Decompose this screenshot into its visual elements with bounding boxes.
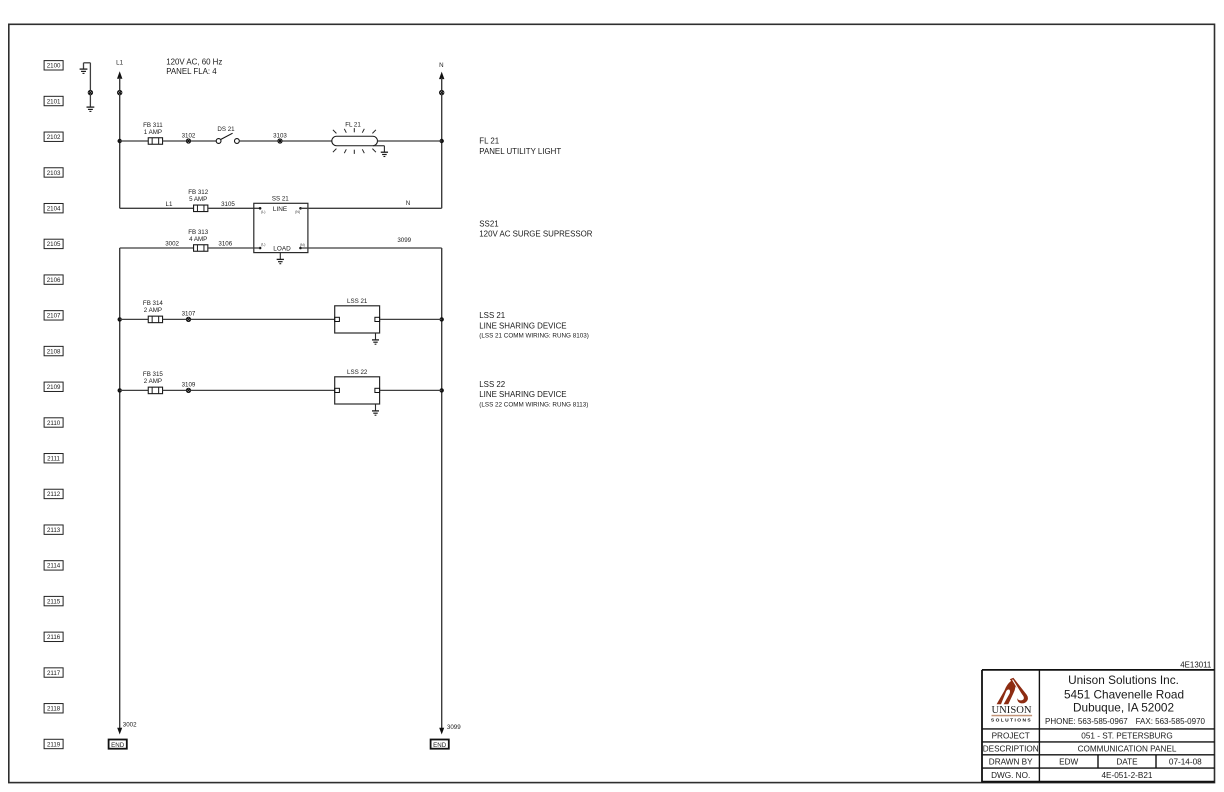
description LSS 21 [479,311,589,339]
svg-text:L1: L1 [166,201,173,208]
wire rung 2102 segment d [239,140,277,142]
wire rung 2104 segment b [208,207,260,209]
svg-text:3102: 3102 [182,132,196,139]
terminal 3102 [182,132,196,143]
svg-text:2108: 2108 [47,348,61,355]
wire label 3002 at rail bottom [123,722,137,729]
END marker left [109,740,127,749]
N rail (vertical bus) [441,78,443,209]
svg-text:1 AMP: 1 AMP [144,129,162,136]
svg-text:2 AMP: 2 AMP [144,307,162,314]
svg-text:LSS 22: LSS 22 [479,380,505,389]
Unison logo wordmark [991,705,1032,724]
svg-text:SS21: SS21 [479,220,498,229]
svg-text:Unison Solutions Inc.: Unison Solutions Inc. [1068,673,1179,687]
svg-text:3002: 3002 [165,240,179,247]
wire label 3105 [221,201,235,208]
svg-text:2113: 2113 [47,527,61,534]
wire rung 2105 segment c [301,247,442,249]
ground at lamp FL 21 [381,152,388,156]
wire rung 2107 segment d [380,318,442,320]
lamp FL 21 (panel utility light) [332,122,378,154]
svg-text:PHONE: 563-585-0967: PHONE: 563-585-0967 [1045,717,1128,726]
svg-text:3103: 3103 [273,132,287,139]
svg-text:FL 21: FL 21 [479,136,499,145]
svg-text:5 AMP: 5 AMP [189,196,207,203]
svg-text:2112: 2112 [47,491,61,498]
line sharing device LSS 21 [335,298,380,333]
svg-text:3099: 3099 [397,237,411,244]
svg-text:END: END [111,742,125,749]
svg-text:2105: 2105 [47,241,61,248]
feed annotation text [166,58,222,77]
svg-text:2110: 2110 [47,420,61,427]
fuse FB 312 [188,189,209,211]
junction dot right rail / rung 2107 [440,317,444,321]
svg-text:2103: 2103 [47,170,61,177]
svg-text:(L): (L) [261,210,265,214]
svg-text:2 AMP: 2 AMP [144,378,162,385]
junction dot left rail / rung 2109 [118,388,122,392]
disconnect switch DS 21 [216,126,239,143]
svg-text:SS 21: SS 21 [272,196,289,203]
svg-text:2104: 2104 [47,205,61,212]
ground at SS 21 [277,253,284,264]
terminal 3107 [182,311,196,322]
description SS21 [479,220,592,239]
svg-text:2117: 2117 [47,670,61,677]
right rail arrow head (down) [439,728,444,735]
svg-text:(LSS 21 COMM WIRING: RUNG 8103: (LSS 21 COMM WIRING: RUNG 8103) [479,332,589,339]
wire rung 2109 segment b [163,389,187,391]
svg-text:2116: 2116 [47,634,61,641]
wire label 3099 at rail bottom [447,724,461,731]
wire rung 2102 segment c [191,140,217,142]
wire rung 2109 segment a [120,389,149,391]
svg-text:FB 315: FB 315 [143,371,164,378]
wire lamp ground branch [373,146,384,152]
svg-text:4E13011: 4E13011 [1180,660,1211,669]
description FL 21 [479,136,561,155]
wire rung 2109 segment c [191,389,335,391]
svg-text:UNISON: UNISON [991,705,1031,716]
svg-text:2114: 2114 [47,563,61,570]
line sharing device LSS 22 [335,369,380,404]
svg-text:EDW: EDW [1059,758,1078,767]
terminal 3109 [182,382,196,393]
ground at LSS 21 [372,333,379,344]
L1 rail (vertical bus) [119,78,121,209]
svg-text:3002: 3002 [123,722,137,729]
L1 rail arrow head [117,71,122,79]
svg-text:3105: 3105 [221,201,235,208]
svg-text:LSS 21: LSS 21 [479,311,505,320]
svg-text:07-14-08: 07-14-08 [1169,758,1202,767]
wire SS21 LINE internal to N [301,207,442,209]
wire (bonding vertical) [89,63,91,107]
wire rung 2105 segment a [120,247,194,249]
svg-text:5451 Chavenelle Road: 5451 Chavenelle Road [1064,688,1184,702]
wire rung 2102 segment d2 [282,140,332,142]
svg-text:051 - ST. PETERSBURG: 051 - ST. PETERSBURG [1081,732,1172,741]
svg-text:3106: 3106 [218,240,232,247]
svg-text:DS 21: DS 21 [217,126,235,133]
wire rung 2107 segment c [191,318,335,320]
svg-text:(LSS 22 COMM WIRING: RUNG 8113: (LSS 22 COMM WIRING: RUNG 8113) [479,401,588,408]
left rail 3002 (vertical) [119,248,121,729]
wire label L1 on rung 2104 [166,201,173,208]
svg-text:(N): (N) [300,243,305,247]
svg-text:LINE SHARING DEVICE: LINE SHARING DEVICE [479,321,566,330]
fuse FB 311 [143,122,163,144]
svg-text:DRAWN BY: DRAWN BY [989,758,1033,767]
title block row DRAWN BY [989,758,1202,767]
fuse FB 314 [143,300,164,322]
svg-text:FB 311: FB 311 [143,122,163,129]
title block row PROJECT [992,732,1173,741]
ground G2 (top-left bonding, lower) [87,107,95,111]
wire rung 2105 segment b [208,247,260,249]
svg-text:120V AC SURGE SUPRESSOR: 120V AC SURGE SUPRESSOR [479,230,592,239]
wire rung 2102 segment b [163,140,187,142]
svg-text:FB 313: FB 313 [188,229,209,236]
END marker right [431,740,449,749]
svg-text:3109: 3109 [182,382,196,389]
title block row DESCRIPTION [983,745,1177,754]
fuse FB 315 [143,371,164,393]
svg-text:DWG. NO.: DWG. NO. [991,771,1030,780]
svg-text:2118: 2118 [47,706,61,713]
svg-text:Dubuque, IA 52002: Dubuque, IA 52002 [1073,701,1174,715]
wire label 3106 [218,240,232,247]
svg-text:COMMUNICATION PANEL: COMMUNICATION PANEL [1078,745,1177,754]
svg-text:FB 314: FB 314 [143,300,164,307]
junction dot N / rung 2102 [440,139,444,143]
svg-text:FB 312: FB 312 [188,189,209,196]
svg-text:2102: 2102 [47,134,61,141]
title block address [1045,673,1206,726]
wire rung 2102 segment a [120,140,149,142]
left rail arrow head (down) [117,728,122,735]
svg-text:4E-051-2-B21: 4E-051-2-B21 [1102,771,1153,780]
svg-text:2111: 2111 [47,456,60,463]
svg-text:END: END [433,742,447,749]
svg-text:FL 21: FL 21 [345,122,361,129]
svg-text:LINE SHARING DEVICE: LINE SHARING DEVICE [479,390,566,399]
title block grid [982,670,1215,783]
svg-text:2106: 2106 [47,277,61,284]
wire rung 2107 segment b [163,318,187,320]
junction dot L1 / rung 2102 [118,139,122,143]
N rail arrow head [439,72,444,80]
svg-text:2109: 2109 [47,384,61,391]
svg-text:LSS 22: LSS 22 [347,369,368,376]
terminal point on L1 rail [118,90,122,94]
terminal 3103 [273,132,287,143]
svg-text:2101: 2101 [47,98,61,105]
terminal point on N rail [440,90,444,94]
svg-text:(L): (L) [261,242,265,246]
svg-text:(N): (N) [295,210,300,214]
svg-text:3099: 3099 [447,724,461,731]
node N label [439,62,443,69]
description LSS 22 [479,380,588,409]
svg-text:2115: 2115 [47,598,61,605]
svg-text:4 AMP: 4 AMP [189,236,207,243]
right rail 3099 (vertical) [441,248,443,729]
svg-text:LINE: LINE [273,206,287,213]
svg-text:PANEL UTILITY LIGHT: PANEL UTILITY LIGHT [479,147,561,156]
junction dot right rail / rung 2109 [440,388,444,392]
terminal point on bonding wire [88,90,92,94]
fuse FB 313 [188,229,209,251]
wire rung 2102 segment e [378,140,442,142]
surge suppressor SS 21 [254,196,308,253]
drawing id 4E13011 [1180,660,1211,669]
svg-text:120V AC, 60 Hz: 120V AC, 60 Hz [166,58,222,67]
svg-text:2119: 2119 [47,741,61,748]
svg-text:PROJECT: PROJECT [992,732,1030,741]
svg-text:N: N [439,62,443,69]
svg-text:LOAD: LOAD [273,245,291,252]
svg-text:LSS 21: LSS 21 [347,298,368,305]
ground at LSS 22 [372,404,379,415]
svg-text:2100: 2100 [47,63,61,70]
junction dot left rail / rung 2107 [118,317,122,321]
Unison logo mark [997,678,1028,705]
rung number column 2100-2119 [44,61,63,749]
wire rung 2104 segment a [120,207,194,209]
svg-text:FAX: 563-585-0970: FAX: 563-585-0970 [1136,717,1206,726]
wire label 3002 on rung 2105 [165,240,179,247]
wire label N on rung 2104 [406,200,410,207]
wire label 3099 on rung 2105 [397,237,411,244]
svg-text:DATE: DATE [1116,758,1138,767]
svg-text:DESCRIPTION: DESCRIPTION [983,745,1039,754]
title block row DWG NO [991,771,1153,780]
svg-text:PANEL FLA: 4: PANEL FLA: 4 [166,67,217,76]
svg-text:3107: 3107 [182,311,196,318]
wire rung 2109 segment d [380,389,442,391]
svg-text:L1: L1 [116,60,123,67]
svg-text:N: N [406,200,410,207]
svg-text:2107: 2107 [47,313,61,320]
wire rung 2107 segment a [120,318,149,320]
ground G1 (top-left bonding, upper) [80,63,91,74]
node L1 label [116,60,123,67]
svg-text:SOLUTIONS: SOLUTIONS [991,717,1032,723]
